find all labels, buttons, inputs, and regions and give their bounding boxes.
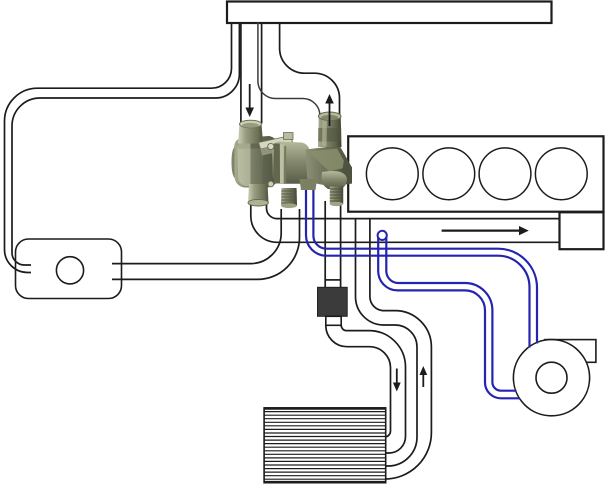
hose core return left line	[356, 220, 418, 467]
pipe valve outlet to radiator outer line	[280, 22, 340, 117]
cylinder 2	[423, 148, 475, 200]
engine block	[348, 136, 603, 211]
heater control valve (photo)	[232, 112, 353, 208]
return pipe top line (valve to outlet housing)	[267, 203, 560, 219]
pipe radiator to valve inlet right line	[261, 22, 263, 124]
pipe valve outlet to radiator inner line	[258, 22, 320, 120]
flow arrow right (return pipe)	[442, 230, 520, 232]
outlet housing (small rect below engine right)	[560, 212, 604, 249]
blue hose valve-to-pump line1 (left/top)	[306, 182, 530, 348]
expansion tank	[16, 239, 122, 299]
hose restrictor to heater core left line	[326, 325, 391, 437]
flow arrow up (from heater core)	[422, 375, 424, 388]
cylinder 4	[535, 148, 587, 200]
hose tank to valve upper line	[112, 209, 281, 264]
hose radiator-to-tank outer line	[5, 22, 232, 273]
radiator (top header tank)	[227, 2, 552, 24]
hose core return right line	[370, 220, 432, 480]
pipe radiator to valve inlet left line	[240, 22, 242, 124]
hose tank to valve lower line	[112, 209, 300, 279]
flow arrow down (radiator to valve)	[249, 84, 251, 108]
pipe valve to restrictor left line	[324, 201, 326, 288]
blue hose bleed-to-pump left line	[378, 237, 519, 398]
cylinder 3	[479, 148, 531, 200]
flow arrow down (to heater core)	[396, 369, 398, 384]
heater core (hatched matrix)	[264, 408, 386, 483]
restrictor bottom collar	[326, 316, 341, 325]
heater core fins	[264, 412, 386, 480]
pump body circle	[513, 340, 589, 416]
hose restrictor to heater core right line	[341, 325, 405, 453]
restrictor block (black square)	[318, 287, 348, 316]
blue hose bleed-to-pump right line	[386, 237, 516, 391]
blue bleed cap circle	[378, 231, 387, 240]
flow arrow up (valve to radiator)	[329, 103, 331, 126]
pipe valve to restrictor right line	[340, 188, 342, 288]
hose radiator-to-tank inner line	[12, 22, 239, 265]
restrictor collar line	[325, 279, 340, 281]
cylinder 1	[366, 148, 418, 200]
blue hose valve-to-pump line2 (right/bottom)	[313, 182, 537, 344]
pump hub circle	[536, 362, 567, 393]
return pipe bottom line	[251, 202, 560, 242]
pump volute tab	[545, 340, 596, 363]
tank cap circle	[56, 257, 83, 284]
